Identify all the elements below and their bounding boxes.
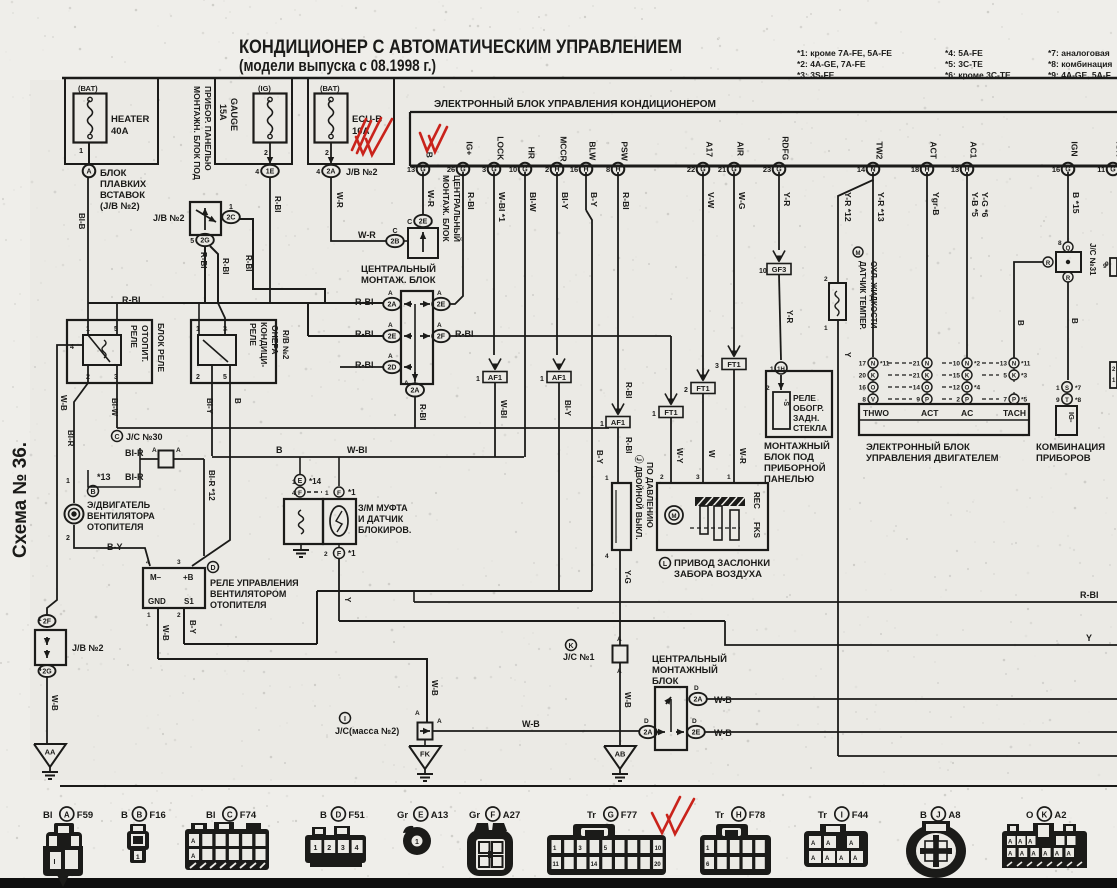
svg-text:ПРИВОД ЗАСЛОНКИ: ПРИВОД ЗАСЛОНКИ	[674, 558, 770, 569]
svg-text:D: D	[336, 810, 342, 819]
svg-text:A: A	[853, 856, 858, 862]
svg-text:2F: 2F	[43, 619, 52, 626]
svg-text:13: 13	[407, 165, 415, 174]
svg-text:17: 17	[859, 361, 867, 368]
svg-text:ПАНЕЛЬЮ: ПАНЕЛЬЮ	[764, 474, 814, 485]
svg-text:Э/ДВИГАТЕЛЬ: Э/ДВИГАТЕЛЬ	[87, 500, 151, 510]
svg-text:1: 1	[325, 490, 329, 497]
svg-text:A: A	[176, 447, 181, 454]
svg-text:A: A	[64, 810, 70, 819]
svg-text:T: T	[1065, 398, 1069, 404]
svg-text:J: J	[936, 810, 940, 819]
svg-text:5: 5	[190, 238, 194, 245]
svg-text:BI-R: BI-R	[125, 472, 144, 482]
svg-text:15A: 15A	[218, 104, 228, 121]
svg-text:5: 5	[1003, 373, 1007, 380]
svg-text:Bl: Bl	[43, 810, 53, 821]
svg-text:J/B №2: J/B №2	[346, 167, 378, 177]
svg-text:F74: F74	[240, 810, 257, 821]
svg-text:W-R: W-R	[358, 230, 376, 240]
svg-text:4: 4	[255, 169, 259, 176]
svg-text:S: S	[1065, 386, 1069, 392]
svg-text:I: I	[841, 810, 843, 819]
svg-text:R-BI: R-BI	[455, 329, 474, 339]
svg-text:W-B: W-B	[522, 719, 540, 729]
svg-text:ЦЕНТРАЛЬНЫЙ: ЦЕНТРАЛЬНЫЙ	[452, 175, 463, 242]
svg-text:BI-W: BI-W	[528, 192, 538, 212]
svg-text:O: O	[1026, 810, 1033, 821]
svg-text:R/B №2: R/B №2	[281, 330, 290, 360]
svg-text:C: C	[227, 810, 233, 819]
svg-text:Gr: Gr	[397, 810, 408, 821]
svg-text:A2: A2	[1054, 810, 1066, 821]
svg-text:H: H	[736, 810, 742, 819]
svg-text:*8: *8	[1075, 397, 1082, 404]
svg-text:2A: 2A	[388, 302, 397, 309]
svg-text:*1: *1	[348, 549, 356, 558]
svg-text:K: K	[965, 373, 970, 379]
svg-text:*8: комбинация: *8: комбинация	[1048, 59, 1112, 69]
svg-text:F: F	[337, 490, 341, 497]
svg-text:RDFG: RDFG	[780, 136, 790, 160]
svg-text:УПРАВЛЕНИЯ ДВИГАТЕЛЕМ: УПРАВЛЕНИЯ ДВИГАТЕЛЕМ	[866, 453, 999, 464]
svg-text:ВЕНТИЛЯТОРОМ: ВЕНТИЛЯТОРОМ	[210, 589, 286, 599]
svg-text:R-BI: R-BI	[355, 329, 374, 339]
svg-text:БЛОК: БЛОК	[100, 168, 127, 179]
svg-text:PSW: PSW	[619, 141, 629, 161]
svg-text:R-BI: R-BI	[1080, 590, 1099, 600]
svg-text:20: 20	[859, 373, 867, 380]
svg-text:W-BI: W-BI	[347, 445, 367, 455]
svg-text:K: K	[1012, 373, 1017, 379]
svg-text:D: D	[694, 685, 699, 692]
svg-text:*5: 3C-TE: *5: 3C-TE	[945, 59, 983, 69]
svg-text:*4: 5A-FE: *4: 5A-FE	[945, 48, 983, 58]
svg-text:A: A	[1028, 840, 1033, 846]
svg-text:A: A	[388, 353, 393, 360]
svg-text:1: 1	[1056, 385, 1060, 392]
svg-text:*11: *11	[1021, 361, 1031, 368]
svg-text:THWO: THWO	[863, 408, 889, 418]
svg-text:HR: HR	[526, 147, 536, 159]
svg-text:B: B	[424, 152, 434, 158]
svg-text:*7: аналоговая: *7: аналоговая	[1048, 48, 1110, 58]
svg-text:B: B	[90, 489, 95, 496]
svg-text:W-BI: W-BI	[499, 400, 508, 418]
svg-text:26: 26	[447, 165, 455, 174]
svg-text:40A: 40A	[111, 126, 129, 137]
svg-text:P: P	[1012, 397, 1016, 403]
svg-text:2: 2	[327, 845, 331, 852]
svg-text:Y-R *12: Y-R *12	[843, 192, 853, 222]
svg-text:S1: S1	[184, 597, 194, 606]
svg-text:G: G	[1110, 167, 1116, 174]
svg-text:*1: *1	[348, 488, 356, 497]
svg-text:1: 1	[229, 204, 233, 211]
svg-text:B: B	[920, 810, 927, 821]
svg-text:A: A	[152, 447, 157, 454]
svg-text:FT1: FT1	[727, 360, 740, 369]
svg-text:1: 1	[66, 478, 70, 485]
svg-text:B: B	[137, 810, 143, 819]
svg-text:4: 4	[355, 845, 359, 852]
svg-text:W-G: W-G	[737, 192, 747, 210]
svg-text:ПРИБОРНОЙ: ПРИБОРНОЙ	[764, 462, 826, 474]
svg-text:R-BI: R-BI	[273, 196, 282, 212]
svg-text:2A: 2A	[694, 697, 703, 704]
svg-text:A: A	[86, 169, 91, 176]
svg-text:ЦЕНТРАЛЬНЫЙ: ЦЕНТРАЛЬНЫЙ	[361, 263, 436, 275]
svg-text:R-BI: R-BI	[199, 252, 208, 268]
svg-text:(ВАТ): (ВАТ)	[78, 84, 98, 93]
svg-text:2E: 2E	[437, 302, 446, 309]
svg-text:11: 11	[1097, 165, 1105, 174]
svg-text:ПРИБОРОВ: ПРИБОРОВ	[1036, 453, 1091, 464]
svg-text:L: L	[663, 561, 668, 568]
svg-text:*11: *11	[880, 361, 890, 368]
svg-text:2: 2	[824, 276, 828, 283]
svg-text:ПРИБОР. ПАНЕЛЬЮ: ПРИБОР. ПАНЕЛЬЮ	[203, 86, 213, 171]
svg-text:IG+: IG+	[464, 141, 474, 155]
svg-text:IG-: IG-	[1067, 412, 1076, 423]
svg-text:2B: 2B	[391, 239, 400, 246]
svg-text:2: 2	[324, 551, 328, 558]
svg-text:Y-R: Y-R	[785, 310, 794, 324]
svg-text:2: 2	[177, 612, 181, 619]
svg-text:ПО ДАВЛЕНИЮ: ПО ДАВЛЕНИЮ	[645, 462, 655, 528]
svg-text:E: E	[298, 478, 303, 485]
svg-text:3: 3	[696, 474, 700, 481]
svg-text:B *15: B *15	[1071, 192, 1081, 214]
svg-text:3: 3	[482, 165, 486, 174]
svg-text:ЦЕНТРАЛЬНЫЙ: ЦЕНТРАЛЬНЫЙ	[652, 653, 727, 665]
svg-text:Y-G: Y-G	[623, 570, 632, 584]
svg-text:3: 3	[341, 845, 345, 852]
svg-text:A: A	[826, 841, 831, 847]
svg-text:2E: 2E	[419, 219, 428, 226]
svg-text:B-Y: B-Y	[595, 450, 604, 464]
svg-text:СТЕКЛА: СТЕКЛА	[793, 423, 827, 433]
svg-text:W-BI *1: W-BI *1	[497, 192, 507, 222]
svg-text:2: 2	[66, 535, 70, 542]
svg-text:A: A	[1067, 852, 1072, 858]
svg-text:8: 8	[862, 397, 866, 404]
svg-text:LOCK: LOCK	[495, 136, 505, 161]
svg-text:21: 21	[718, 165, 726, 174]
svg-text:A: A	[1008, 840, 1013, 846]
svg-text:ЗАБОРА ВОЗДУХА: ЗАБОРА ВОЗДУХА	[674, 569, 762, 580]
svg-text:BI-R *12: BI-R *12	[207, 470, 216, 501]
svg-text:A: A	[404, 380, 409, 387]
svg-text:AF1: AF1	[552, 373, 566, 382]
svg-text:GAUGE: GAUGE	[229, 98, 239, 131]
svg-text:R-BI: R-BI	[244, 255, 253, 271]
svg-text:11: 11	[553, 862, 560, 868]
svg-text:(IG): (IG)	[258, 84, 271, 93]
svg-text:1: 1	[79, 146, 83, 155]
svg-text:2G: 2G	[200, 238, 210, 245]
svg-text:16: 16	[1052, 165, 1060, 174]
svg-text:I: I	[54, 859, 56, 866]
svg-text:РЕЛЕ: РЕЛЕ	[129, 325, 139, 348]
svg-text:1: 1	[476, 376, 480, 383]
svg-text:I: I	[344, 716, 346, 723]
svg-text:A: A	[839, 856, 844, 862]
svg-text:A: A	[811, 856, 816, 862]
svg-text:W-B: W-B	[59, 395, 68, 411]
svg-text:GF3: GF3	[772, 265, 787, 274]
svg-text:AF1: AF1	[488, 373, 502, 382]
svg-text:ACT: ACT	[928, 141, 938, 159]
svg-text:W-R: W-R	[738, 448, 747, 464]
svg-text:1: 1	[415, 839, 419, 846]
svg-text:2: 2	[264, 150, 268, 157]
svg-text:A8: A8	[948, 810, 960, 821]
svg-text:1: 1	[652, 411, 656, 418]
svg-text:РЕЛЕ: РЕЛЕ	[793, 393, 816, 403]
svg-text:РЕЛЕ: РЕЛЕ	[248, 323, 258, 346]
svg-text:R: R	[1066, 276, 1071, 282]
svg-text:BI-Y: BI-Y	[560, 192, 570, 209]
svg-text:*13: *13	[97, 472, 111, 482]
svg-text:B: B	[1070, 318, 1079, 324]
svg-text:ACT: ACT	[921, 408, 939, 418]
svg-text:A: A	[191, 839, 196, 845]
svg-text:9: 9	[1103, 263, 1107, 270]
svg-text:МОНТАЖН. БЛОК ПОД: МОНТАЖН. БЛОК ПОД	[192, 86, 202, 180]
svg-text:ЭЛЕКТРОННЫЙ БЛОК УПРАВЛЕНИЯ КО: ЭЛЕКТРОННЫЙ БЛОК УПРАВЛЕНИЯ КОНДИЦИОНЕРО…	[434, 97, 716, 110]
svg-text:РЕЛЕ УПРАВЛЕНИЯ: РЕЛЕ УПРАВЛЕНИЯ	[210, 578, 299, 588]
svg-text:Gr: Gr	[469, 810, 480, 821]
svg-text:14: 14	[913, 385, 921, 392]
svg-text:AC1: AC1	[968, 141, 978, 158]
svg-text:W-B: W-B	[161, 625, 170, 641]
svg-text:2: 2	[545, 165, 549, 174]
svg-text:R-BI: R-BI	[621, 192, 631, 210]
svg-text:REC: REC	[752, 492, 761, 509]
svg-text:R-BI: R-BI	[418, 404, 427, 420]
svg-text:1: 1	[314, 845, 318, 852]
svg-text:TW2: TW2	[874, 141, 884, 159]
svg-text:A: A	[1018, 840, 1023, 846]
svg-text:V: V	[871, 397, 875, 403]
svg-text:ПЛАВКИХ: ПЛАВКИХ	[100, 179, 147, 190]
svg-text:A: A	[1055, 852, 1060, 858]
svg-text:B: B	[121, 810, 128, 821]
svg-text:IGN: IGN	[1069, 141, 1079, 156]
svg-text:1E: 1E	[266, 169, 275, 176]
svg-text:2: 2	[325, 150, 329, 157]
svg-text:*2: *2	[974, 361, 981, 368]
svg-text:1: 1	[600, 421, 604, 428]
svg-text:AA: AA	[45, 748, 56, 757]
svg-text:*4: *4	[974, 385, 981, 392]
svg-text:2C: 2C	[227, 215, 236, 222]
svg-text:A: A	[388, 322, 393, 329]
svg-text:2: 2	[766, 385, 770, 392]
svg-text:4: 4	[605, 553, 609, 560]
svg-text:18: 18	[911, 165, 919, 174]
svg-text:K: K	[1042, 810, 1048, 819]
svg-text:FK: FK	[420, 750, 431, 759]
svg-text:5: 5	[223, 374, 227, 381]
svg-text:21: 21	[913, 361, 921, 368]
svg-text:C: C	[392, 228, 397, 235]
svg-text:Ⓙ ДВОЙНОЙ ВЫКЛ.: Ⓙ ДВОЙНОЙ ВЫКЛ.	[634, 455, 645, 540]
svg-text:AF1: AF1	[611, 418, 625, 427]
svg-text:-S: -S	[782, 399, 789, 406]
svg-text:FT1: FT1	[664, 408, 677, 417]
svg-text:TACH: TACH	[1003, 408, 1026, 418]
svg-text:W-B: W-B	[714, 695, 732, 705]
svg-text:K: K	[871, 373, 876, 379]
svg-text:Ygr-B: Ygr-B	[931, 192, 941, 215]
svg-text:20: 20	[654, 862, 661, 868]
svg-text:*14: *14	[309, 477, 322, 486]
svg-text:F16: F16	[149, 810, 165, 821]
svg-text:A: A	[437, 322, 442, 329]
svg-text:W-B: W-B	[714, 728, 732, 738]
svg-text:BI-B: BI-B	[77, 213, 86, 230]
svg-text:BI-R: BI-R	[125, 448, 144, 458]
svg-text:BLW: BLW	[587, 141, 597, 161]
svg-text:(J/B №2): (J/B №2)	[100, 201, 140, 212]
svg-text:B: B	[320, 810, 327, 821]
svg-text:Y: Y	[1086, 633, 1092, 643]
svg-text:Схема № 36.: Схема № 36.	[10, 442, 31, 558]
svg-text:M: M	[672, 514, 677, 520]
svg-text:Y-R: Y-R	[782, 192, 792, 207]
svg-text:21: 21	[913, 373, 921, 380]
svg-text:4: 4	[146, 559, 150, 566]
svg-text:W-R: W-R	[335, 192, 344, 208]
svg-text:O: O	[965, 385, 970, 391]
svg-text:3: 3	[177, 559, 181, 566]
svg-text:*7: *7	[1075, 385, 1082, 392]
svg-text:2: 2	[956, 397, 960, 404]
svg-text:Y: Y	[843, 352, 852, 358]
svg-text:2F: 2F	[437, 334, 446, 341]
svg-text:B: B	[233, 398, 242, 404]
svg-text:МОНТАЖНЫЙ: МОНТАЖНЫЙ	[764, 440, 830, 452]
svg-text:C: C	[114, 434, 119, 441]
svg-text:A: A	[191, 854, 196, 860]
svg-text:HEATER: HEATER	[111, 114, 149, 125]
svg-text:BI-Y: BI-Y	[205, 398, 214, 415]
svg-text:*2: 4A-GE, 7A-FE: *2: 4A-GE, 7A-FE	[797, 59, 866, 69]
svg-text:A: A	[849, 841, 854, 847]
svg-text:9: 9	[1056, 397, 1060, 404]
svg-text:3: 3	[715, 363, 719, 370]
svg-text:МОНТАЖ. БЛОК: МОНТАЖ. БЛОК	[441, 175, 451, 243]
svg-text:10: 10	[509, 165, 517, 174]
svg-text:A: A	[811, 841, 816, 847]
svg-text:10: 10	[953, 361, 961, 368]
svg-text:F51: F51	[348, 810, 365, 821]
svg-text:(ВАТ): (ВАТ)	[320, 84, 340, 93]
svg-text:BI-Y: BI-Y	[563, 400, 572, 417]
svg-text:R-BI: R-BI	[221, 258, 230, 274]
svg-text:Tr: Tr	[715, 810, 724, 821]
svg-text:A27: A27	[503, 810, 520, 821]
svg-text:ОНЕРА: ОНЕРА	[270, 325, 280, 354]
svg-text:2: 2	[684, 387, 688, 394]
svg-text:W-B: W-B	[50, 695, 59, 711]
svg-text:ВСТАВОК: ВСТАВОК	[100, 190, 145, 201]
svg-text:Y-R *13: Y-R *13	[876, 192, 886, 222]
svg-text:Bl: Bl	[206, 810, 216, 821]
svg-text:A: A	[1031, 852, 1036, 858]
svg-text:BI-R: BI-R	[66, 430, 75, 447]
svg-text:*5: *5	[1021, 397, 1028, 404]
svg-text:FKS: FKS	[752, 522, 761, 539]
svg-text:B: B	[1016, 320, 1025, 326]
svg-text:(модели выпуска с 08.1998 г.): (модели выпуска с 08.1998 г.)	[239, 57, 436, 75]
svg-text:P: P	[965, 397, 969, 403]
svg-text:8: 8	[606, 165, 610, 174]
svg-text:G: G	[608, 810, 614, 819]
svg-text:ДАТЧИК ТЕМПЕР.: ДАТЧИК ТЕМПЕР.	[858, 261, 867, 330]
svg-text:J/C №30: J/C №30	[126, 432, 163, 442]
svg-text:1: 1	[136, 854, 140, 861]
svg-text:16: 16	[570, 165, 578, 174]
svg-text:БЛОК РЕЛЕ: БЛОК РЕЛЕ	[156, 323, 166, 372]
svg-text:2E: 2E	[388, 334, 397, 341]
svg-text:F: F	[298, 490, 302, 497]
svg-text:J/B №2: J/B №2	[153, 213, 185, 223]
svg-text:1: 1	[605, 475, 609, 482]
svg-text:P: P	[925, 397, 929, 403]
svg-text:F: F	[490, 810, 495, 819]
svg-text:AIR: AIR	[735, 141, 745, 156]
svg-text:N: N	[965, 361, 969, 367]
svg-text:B-Y: B-Y	[589, 192, 599, 207]
svg-text:КОНДИЦИ-: КОНДИЦИ-	[259, 322, 269, 367]
svg-text:M–: M–	[150, 573, 162, 582]
svg-text:W-R: W-R	[426, 190, 436, 208]
svg-text:A: A	[388, 290, 393, 297]
svg-text:B: B	[276, 445, 283, 455]
svg-text:K: K	[925, 373, 930, 379]
svg-text:16: 16	[859, 385, 867, 392]
svg-text:J/C №1: J/C №1	[563, 652, 595, 662]
svg-text:23: 23	[763, 165, 771, 174]
svg-text:A: A	[415, 710, 420, 717]
svg-text:A17: A17	[704, 141, 714, 157]
svg-text:Y: Y	[343, 597, 352, 603]
svg-text:D: D	[210, 565, 215, 572]
svg-text:R-BI: R-BI	[624, 437, 633, 453]
svg-text:1: 1	[540, 376, 544, 383]
svg-text:V-W: V-W	[706, 192, 716, 209]
svg-text:МОНТАЖНЫЙ: МОНТАЖНЫЙ	[652, 664, 718, 676]
svg-text:M: M	[856, 251, 861, 257]
svg-text:БЛОК ПОД: БЛОК ПОД	[764, 452, 814, 463]
svg-text:D: D	[692, 718, 697, 725]
svg-text:1: 1	[824, 325, 828, 332]
svg-text:14: 14	[591, 862, 598, 868]
svg-text:2A: 2A	[411, 388, 420, 395]
svg-text:13: 13	[951, 165, 959, 174]
svg-text:N: N	[871, 361, 875, 367]
svg-text:Tr: Tr	[818, 810, 827, 821]
svg-text:MCCR: MCCR	[558, 136, 568, 162]
svg-text:F: F	[337, 551, 342, 558]
svg-text:J/B №2: J/B №2	[72, 643, 104, 653]
svg-text:A: A	[1020, 852, 1025, 858]
svg-text:AC: AC	[961, 408, 973, 418]
svg-text:F59: F59	[77, 810, 93, 821]
